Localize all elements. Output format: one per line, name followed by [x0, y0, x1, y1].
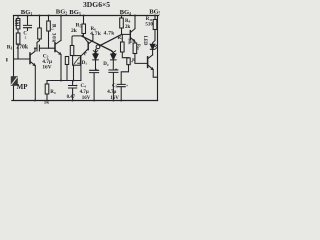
- svg-text:R8: R8: [125, 19, 131, 24]
- svg-text:2k: 2k: [71, 28, 78, 34]
- svg-text:R2 30k: R2 30k: [51, 24, 57, 43]
- svg-text:4.7μ: 4.7μ: [80, 90, 89, 95]
- svg-text:C5: C5: [112, 84, 118, 89]
- svg-text:4.7μ: 4.7μ: [107, 90, 116, 95]
- svg-text:C4: C4: [81, 84, 87, 89]
- svg-text:LED: LED: [142, 36, 147, 46]
- svg-text:3DG6×5: 3DG6×5: [83, 0, 110, 9]
- svg-text:2k: 2k: [125, 25, 131, 30]
- svg-text:4.7k: 4.7k: [104, 30, 115, 36]
- svg-text:D2: D2: [103, 62, 109, 67]
- svg-text:16V: 16V: [42, 65, 51, 71]
- svg-text:0.01: 0.01: [14, 20, 18, 27]
- svg-text:4.7k: 4.7k: [90, 31, 101, 37]
- svg-text:BG5: BG5: [149, 9, 160, 16]
- svg-text:+: +: [95, 68, 98, 73]
- svg-text:16V: 16V: [110, 96, 119, 101]
- svg-text:+: +: [126, 83, 129, 88]
- svg-text:510: 510: [145, 22, 153, 27]
- svg-text:+: +: [115, 68, 118, 73]
- svg-text:1k: 1k: [44, 101, 50, 106]
- svg-text:270k: 270k: [16, 45, 29, 51]
- svg-text:16V: 16V: [82, 96, 91, 101]
- svg-text:0.47: 0.47: [67, 95, 76, 100]
- svg-text:R7: R7: [118, 36, 124, 41]
- svg-text:MP: MP: [17, 83, 29, 91]
- svg-text:10k: 10k: [128, 38, 133, 45]
- svg-text:D1: D1: [82, 61, 88, 66]
- svg-text:2: 2: [25, 35, 27, 39]
- svg-text:R4: R4: [50, 90, 56, 95]
- svg-text:+: +: [75, 84, 78, 89]
